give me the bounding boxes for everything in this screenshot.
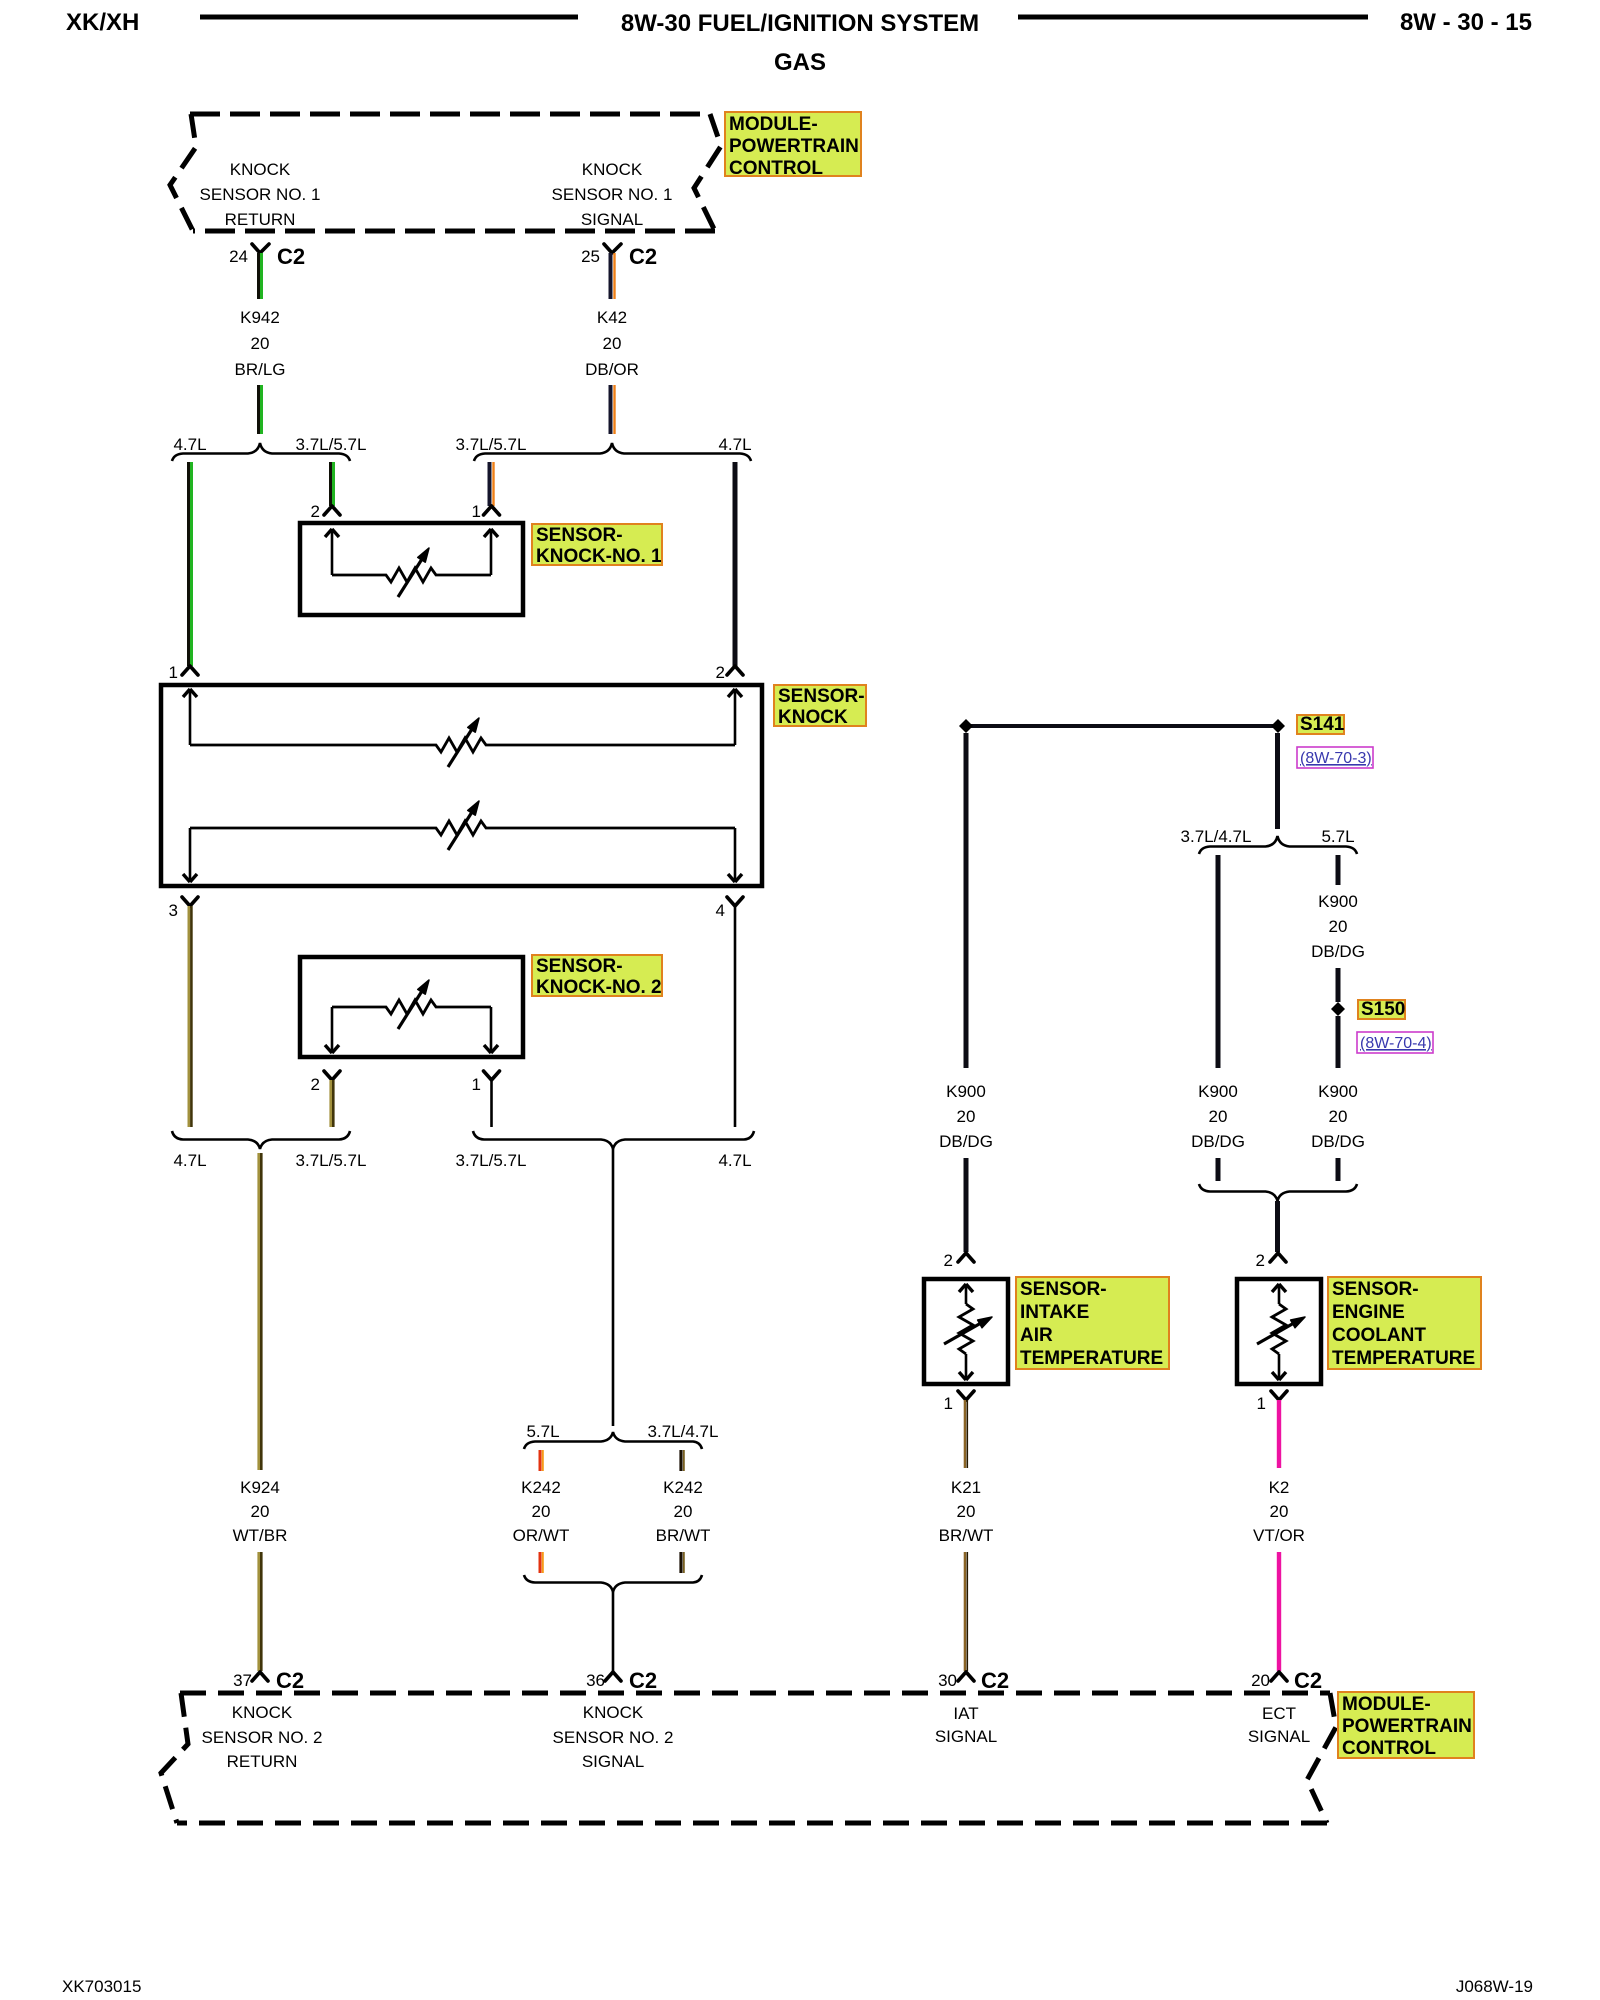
pin 2 fork of sensor knock no.1 — [311, 502, 340, 521]
svg-text:BR/LG: BR/LG — [234, 360, 285, 379]
sensor knock no.1 terminal 2 with arrow — [325, 529, 339, 575]
svg-text:K942: K942 — [240, 308, 280, 327]
svg-text:5.7L: 5.7L — [1321, 827, 1354, 846]
pin 2 fork of ECT sensor — [1256, 1251, 1286, 1270]
wire label K21 20 BR/WT — [939, 1478, 994, 1545]
svg-text:SIGNAL: SIGNAL — [582, 1752, 644, 1771]
label SENSOR-KNOCK-NO. 2 — [532, 955, 662, 998]
wire label K900 20 DB/DG (3.7L/4.7L branch) — [1191, 1082, 1245, 1151]
svg-text:SENSOR-: SENSOR- — [778, 686, 865, 707]
svg-text:1: 1 — [472, 502, 481, 521]
wire pin1 no.2 to merge brace (black) — [490, 1080, 493, 1127]
svg-text:2: 2 — [311, 502, 320, 521]
svg-text:37: 37 — [233, 1671, 252, 1690]
net label KNOCK SENSOR NO. 2 SIGNAL — [553, 1703, 674, 1771]
net label IAT SIGNAL — [935, 1704, 997, 1746]
svg-text:K242: K242 — [521, 1478, 561, 1497]
sensor knock upper element right terminal with arrow — [728, 689, 742, 745]
sensor intake air temperature box — [924, 1279, 1008, 1384]
wire from merge brace to ECT pin 2 (black) — [1275, 1201, 1280, 1252]
svg-text:4.7L: 4.7L — [173, 435, 206, 454]
module-powertrain control (bottom) dashed outline top edge — [180, 1691, 1330, 1696]
svg-text:20: 20 — [1209, 1107, 1228, 1126]
svg-text:C2: C2 — [981, 1668, 1009, 1693]
svg-text:4.7L: 4.7L — [718, 1151, 751, 1170]
wire K2 lower segment (violet) — [1277, 1552, 1281, 1671]
svg-text:SENSOR-: SENSOR- — [1332, 1279, 1419, 1300]
net label ECT SIGNAL — [1248, 1704, 1310, 1746]
svg-text:3.7L/5.7L: 3.7L/5.7L — [296, 435, 367, 454]
svg-text:MODULE-: MODULE- — [1342, 1694, 1431, 1715]
svg-text:5.7L: 5.7L — [526, 1422, 559, 1441]
sensor knock lower variable resistor — [190, 801, 735, 850]
svg-text:K900: K900 — [1318, 892, 1358, 911]
IAT thermistor bottom terminal with arrow — [959, 1354, 973, 1380]
net label KNOCK SENSOR NO. 1 RETURN — [200, 160, 321, 229]
IAT thermistor top terminal with arrow — [959, 1284, 973, 1304]
wire K900 3.7L/4.7L lower stub (black) — [1216, 1158, 1221, 1181]
svg-text:K242: K242 — [663, 1478, 703, 1497]
svg-text:POWERTRAIN: POWERTRAIN — [729, 136, 859, 157]
label SENSOR-KNOCK — [774, 685, 866, 728]
module-powertrain control (bottom) dashed outline left jagged edge — [161, 1693, 188, 1823]
svg-text:J068W-19: J068W-19 — [1456, 1977, 1533, 1996]
wire label K924 20 WT/BR — [233, 1478, 288, 1545]
sensor knock no.2 terminal 1 with arrow — [484, 1007, 498, 1053]
module-powertrain control (bottom) dashed outline right jagged edge — [1307, 1693, 1336, 1823]
pin 2 fork of sensor knock — [716, 663, 743, 682]
svg-text:1: 1 — [472, 1075, 481, 1094]
svg-text:DB/DG: DB/DG — [1311, 1132, 1365, 1151]
svg-text:20: 20 — [957, 1502, 976, 1521]
net label KNOCK SENSOR NO. 2 RETURN — [202, 1703, 323, 1771]
wire label K942 20 BR/LG — [234, 308, 285, 379]
engine split brace right (3.7L-5.7L / 4.7L) — [474, 443, 751, 461]
svg-text:C2: C2 — [276, 1668, 304, 1693]
svg-text:2: 2 — [1256, 1251, 1265, 1270]
svg-text:3.7L/4.7L: 3.7L/4.7L — [648, 1422, 719, 1441]
RIGHT SECTION — [924, 714, 1481, 1693]
sensor knock box — [161, 685, 762, 886]
svg-text:XK703015: XK703015 — [62, 1977, 141, 1996]
pin 1 fork of ECT sensor — [1257, 1391, 1287, 1413]
wire IAT branch lower segment (black) — [964, 1158, 969, 1252]
svg-text:KNOCK: KNOCK — [232, 1703, 293, 1722]
wire 4.7L branch to knock sensor pin 1 (black/green) — [189, 462, 192, 666]
svg-text:WT/BR: WT/BR — [233, 1526, 288, 1545]
svg-text:K900: K900 — [946, 1082, 986, 1101]
wire K42 upper segment (dark blue/orange) — [611, 253, 615, 299]
header rule left — [200, 15, 578, 20]
wire to pin 36 (black) — [612, 1592, 615, 1671]
svg-text:K2: K2 — [1269, 1478, 1290, 1497]
wire label K242 20 BR/WT — [656, 1478, 711, 1545]
splice S141 bus wire — [966, 724, 1278, 728]
wire 4.7L branch to knock sensor pin 2 (black) — [733, 462, 738, 666]
svg-text:3.7L/5.7L: 3.7L/5.7L — [296, 1151, 367, 1170]
wire from S141 down (black) — [1275, 733, 1280, 829]
svg-text:25: 25 — [581, 247, 600, 266]
svg-text:2: 2 — [716, 663, 725, 682]
svg-text:KNOCK: KNOCK — [583, 1703, 644, 1722]
merge brace K242 — [524, 1575, 702, 1592]
svg-text:20: 20 — [251, 1502, 270, 1521]
pin 3 fork of sensor knock — [169, 897, 198, 920]
wire K21 upper segment (brown) — [965, 1400, 967, 1468]
wire label K242 20 OR/WT — [513, 1478, 570, 1545]
svg-text:3.7L/5.7L: 3.7L/5.7L — [456, 1151, 527, 1170]
label SENSOR-KNOCK-NO. 1 — [532, 524, 662, 567]
svg-text:C2: C2 — [1294, 1668, 1322, 1693]
svg-text:KNOCK: KNOCK — [582, 160, 643, 179]
svg-text:20: 20 — [603, 334, 622, 353]
svg-text:8W - 30 - 15: 8W - 30 - 15 — [1400, 9, 1532, 36]
svg-text:SENSOR NO. 1: SENSOR NO. 1 — [552, 185, 673, 204]
wire K242 BR/WT upper stub (dark brown/tan) — [681, 1450, 684, 1471]
svg-text:20: 20 — [251, 334, 270, 353]
svg-text:S141: S141 — [1300, 714, 1345, 735]
sensor knock no.1 box — [300, 523, 523, 615]
pin 30 connector fork C2 — [938, 1668, 1009, 1693]
svg-text:TEMPERATURE: TEMPERATURE — [1020, 1348, 1163, 1369]
pin 1 fork of IAT sensor — [944, 1391, 974, 1413]
svg-text:20: 20 — [1329, 1107, 1348, 1126]
svg-text:K42: K42 — [597, 308, 627, 327]
wire K242 OR/WT lower stub (red/orange) — [540, 1552, 543, 1573]
svg-text:C2: C2 — [277, 244, 305, 269]
svg-text:36: 36 — [586, 1671, 605, 1690]
wire K900 3.7L/4.7L branch (black) — [1216, 855, 1221, 1068]
svg-text:SIGNAL: SIGNAL — [1248, 1727, 1310, 1746]
merge brace left (4.7L / 3.7L-5.7L) — [172, 1131, 350, 1149]
pin 25 connector fork C2 — [581, 244, 657, 269]
pin 2 fork of IAT sensor — [944, 1251, 974, 1270]
sensor knock no.1 variable resistor — [332, 548, 491, 597]
sensor knock no.2 box — [300, 957, 523, 1057]
svg-text:SENSOR NO. 2: SENSOR NO. 2 — [553, 1728, 674, 1747]
wire K42 lower segment (dark blue/orange) — [611, 385, 615, 434]
splice S150 junction diamond — [1331, 1002, 1345, 1016]
svg-text:XK/XH: XK/XH — [66, 9, 139, 36]
pin 2 fork below sensor knock no.2 — [311, 1071, 340, 1094]
svg-text:KNOCK-NO. 2: KNOCK-NO. 2 — [536, 977, 662, 998]
svg-text:1: 1 — [944, 1394, 953, 1413]
svg-text:20: 20 — [1329, 917, 1348, 936]
module-powertrain control (top) dashed outline bottom edge — [193, 229, 715, 234]
svg-text:C2: C2 — [629, 1668, 657, 1693]
svg-text:30: 30 — [938, 1671, 957, 1690]
wire K900 5.7L branch upper stub (black) — [1336, 855, 1341, 885]
svg-text:(8W-70-3): (8W-70-3) — [1300, 750, 1372, 767]
label SENSOR-INTAKE AIR TEMPERATURE — [1016, 1277, 1169, 1369]
pin 37 connector fork C2 — [233, 1668, 304, 1693]
reference 8W-70-4 — [1357, 1032, 1433, 1053]
module-powertrain control (top) dashed outline right jagged edge — [694, 114, 721, 231]
svg-text:4: 4 — [716, 901, 725, 920]
svg-text:3.7L/4.7L: 3.7L/4.7L — [1181, 827, 1252, 846]
pin 20 connector fork C2 — [1251, 1668, 1322, 1693]
pin 24 connector fork C2 — [229, 244, 305, 269]
svg-text:RETURN: RETURN — [227, 1752, 298, 1771]
wire K900 5.7L lower stub (black) — [1336, 1158, 1341, 1181]
svg-text:2: 2 — [944, 1251, 953, 1270]
wire K942 lower segment (black/green) — [259, 385, 262, 434]
svg-text:CONTROL: CONTROL — [729, 158, 823, 179]
svg-text:KNOCK: KNOCK — [230, 160, 291, 179]
wire K21 lower segment (brown) — [965, 1552, 967, 1671]
svg-text:ECT: ECT — [1262, 1704, 1296, 1723]
svg-text:MODULE-: MODULE- — [729, 114, 818, 135]
label MODULE-POWERTRAIN CONTROL (bottom) — [1338, 1692, 1474, 1759]
sensor knock lower element left terminal with arrow — [183, 828, 197, 882]
wire S141 to IAT pin 2 (black) — [964, 733, 969, 1068]
IAT thermistor zigzag — [959, 1304, 973, 1354]
label S150 — [1358, 999, 1405, 1020]
svg-text:(8W-70-4): (8W-70-4) — [1360, 1035, 1432, 1052]
svg-text:K900: K900 — [1318, 1082, 1358, 1101]
ECT variable arrow — [1257, 1317, 1305, 1344]
splice S141 left junction diamond — [959, 719, 973, 733]
HEADER — [66, 9, 1532, 76]
wire pin2 no.2 to merge brace (tan) — [331, 1080, 334, 1127]
svg-text:1: 1 — [169, 663, 178, 682]
svg-text:KNOCK-NO. 1: KNOCK-NO. 1 — [536, 546, 662, 567]
svg-text:SENSOR NO. 1: SENSOR NO. 1 — [200, 185, 321, 204]
svg-text:OR/WT: OR/WT — [513, 1526, 570, 1545]
ECT thermistor zigzag — [1272, 1304, 1286, 1354]
pin 1 fork below sensor knock no.2 — [472, 1071, 500, 1094]
pin 36 connector fork C2 — [586, 1668, 657, 1693]
svg-text:SENSOR-: SENSOR- — [536, 956, 623, 977]
sensor engine coolant temperature box — [1237, 1279, 1321, 1384]
sensor knock no.1 terminal 1 with arrow — [484, 529, 498, 575]
BOTTOM MODULE BOX — [161, 1692, 1474, 1823]
svg-text:20: 20 — [674, 1502, 693, 1521]
sensor knock upper variable resistor — [190, 718, 735, 767]
svg-text:3: 3 — [169, 901, 178, 920]
svg-text:ENGINE: ENGINE — [1332, 1302, 1405, 1323]
label MODULE-POWERTRAIN CONTROL (top) — [725, 112, 861, 179]
svg-text:CONTROL: CONTROL — [1342, 1738, 1436, 1759]
engine split brace left (4.7L / 3.7L-5.7L) — [172, 443, 350, 461]
svg-text:K924: K924 — [240, 1478, 280, 1497]
svg-text:POWERTRAIN: POWERTRAIN — [1342, 1716, 1472, 1737]
svg-text:IAT: IAT — [953, 1704, 978, 1723]
svg-text:20: 20 — [532, 1502, 551, 1521]
svg-text:8W-30 FUEL/IGNITION SYSTEM: 8W-30 FUEL/IGNITION SYSTEM — [621, 10, 979, 37]
svg-text:VT/OR: VT/OR — [1253, 1526, 1305, 1545]
sensor knock lower element right terminal with arrow — [728, 828, 742, 882]
svg-text:4.7L: 4.7L — [718, 435, 751, 454]
svg-text:DB/OR: DB/OR — [585, 360, 639, 379]
svg-text:K21: K21 — [951, 1478, 981, 1497]
header rule right — [1018, 15, 1368, 20]
ECT thermistor bottom terminal with arrow — [1272, 1354, 1286, 1380]
wire knock no.2 signal trunk (black) — [612, 1149, 615, 1426]
svg-text:INTAKE: INTAKE — [1020, 1302, 1089, 1323]
wire label K900 20 DB/DG (5.7L lower) — [1311, 1082, 1365, 1151]
wire K924 lower segment (tan) — [259, 1552, 262, 1671]
svg-text:S150: S150 — [1361, 999, 1405, 1020]
svg-text:SIGNAL: SIGNAL — [935, 1727, 997, 1746]
svg-text:C2: C2 — [629, 244, 657, 269]
wire label K42 20 DB/OR — [585, 308, 639, 379]
svg-text:SIGNAL: SIGNAL — [581, 210, 643, 229]
module-powertrain control (bottom) dashed outline bottom edge — [177, 1821, 1327, 1826]
svg-text:20: 20 — [1251, 1671, 1270, 1690]
wire 3.7L/5.7L branch to knock no.1 pin 2 (black/green) — [331, 462, 334, 506]
wire from label to S150 (black) — [1336, 968, 1341, 1002]
svg-text:4.7L: 4.7L — [173, 1151, 206, 1170]
pin 4 fork of sensor knock — [716, 897, 743, 920]
wire from pin 3 (tan) — [189, 906, 192, 1127]
svg-text:GAS: GAS — [774, 49, 826, 76]
wire label K2 20 VT/OR — [1253, 1478, 1305, 1545]
svg-text:RETURN: RETURN — [225, 210, 296, 229]
label SENSOR-ENGINE COOLANT TEMPERATURE — [1328, 1277, 1481, 1369]
merge brace K900 — [1199, 1184, 1357, 1201]
wire K942 upper segment (black/green) — [259, 253, 262, 299]
sensor knock no.2 terminal 2 with arrow — [325, 1007, 339, 1053]
svg-text:3.7L/5.7L: 3.7L/5.7L — [456, 435, 527, 454]
svg-text:20: 20 — [1270, 1502, 1289, 1521]
pin 1 fork of sensor knock — [169, 663, 198, 682]
svg-text:COOLANT: COOLANT — [1332, 1325, 1426, 1346]
svg-text:DB/DG: DB/DG — [1311, 942, 1365, 961]
FOOTER — [62, 1977, 1533, 1996]
splice S141 right junction diamond — [1271, 719, 1285, 733]
merge brace right (3.7L-5.7L / 4.7L) — [473, 1131, 754, 1149]
svg-text:TEMPERATURE: TEMPERATURE — [1332, 1348, 1475, 1369]
svg-text:SENSOR-: SENSOR- — [1020, 1279, 1107, 1300]
svg-text:DB/DG: DB/DG — [939, 1132, 993, 1151]
svg-text:AIR: AIR — [1020, 1325, 1053, 1346]
pin 1 fork of sensor knock no.1 — [472, 502, 500, 521]
wire from pin 4 (black) — [734, 906, 737, 1127]
wire label K900 20 DB/DG (5.7L upper) — [1311, 892, 1365, 961]
wire 3.7L/5.7L branch to knock no.1 pin 1 (dark blue/orange) — [490, 462, 494, 506]
svg-text:DB/DG: DB/DG — [1191, 1132, 1245, 1151]
ECT thermistor top terminal with arrow — [1272, 1284, 1286, 1304]
sensor knock no.2 variable resistor — [332, 980, 491, 1029]
module-powertrain control (top) dashed outline top edge — [190, 112, 710, 117]
svg-text:2: 2 — [311, 1075, 320, 1094]
reference 8W-70-3 — [1297, 747, 1373, 768]
svg-text:K900: K900 — [1198, 1082, 1238, 1101]
svg-text:SENSOR NO. 2: SENSOR NO. 2 — [202, 1728, 323, 1747]
svg-text:KNOCK: KNOCK — [778, 707, 848, 728]
module-powertrain control (top) dashed outline left jagged edge — [170, 114, 196, 231]
svg-text:1: 1 — [1257, 1394, 1266, 1413]
wire K242 BR/WT lower stub (dark brown/tan) — [681, 1552, 684, 1573]
svg-text:20: 20 — [957, 1107, 976, 1126]
wire below S150 (black) — [1336, 1016, 1341, 1068]
svg-text:BR/WT: BR/WT — [939, 1526, 994, 1545]
svg-text:SENSOR-: SENSOR- — [536, 525, 623, 546]
label S141 — [1297, 714, 1345, 735]
sensor knock upper element left terminal with arrow — [183, 689, 197, 745]
svg-text:24: 24 — [229, 247, 248, 266]
wire K924 upper segment (tan) — [259, 1153, 262, 1470]
LEFT SECTION — [161, 253, 866, 1693]
IAT variable arrow — [944, 1317, 992, 1344]
wire K242 OR/WT upper stub (red/orange) — [540, 1450, 543, 1471]
svg-text:BR/WT: BR/WT — [656, 1526, 711, 1545]
wire K2 upper segment (violet) — [1277, 1400, 1281, 1468]
net label KNOCK SENSOR NO. 1 SIGNAL — [552, 160, 673, 229]
TOP MODULE BOX — [170, 112, 861, 269]
split brace K900 (3.7L-4.7L / 5.7L) — [1199, 836, 1357, 854]
wire label K900 20 DB/DG (IAT branch) — [939, 1082, 993, 1151]
split brace K242 (5.7L / 3.7L-4.7L) — [524, 1432, 702, 1449]
